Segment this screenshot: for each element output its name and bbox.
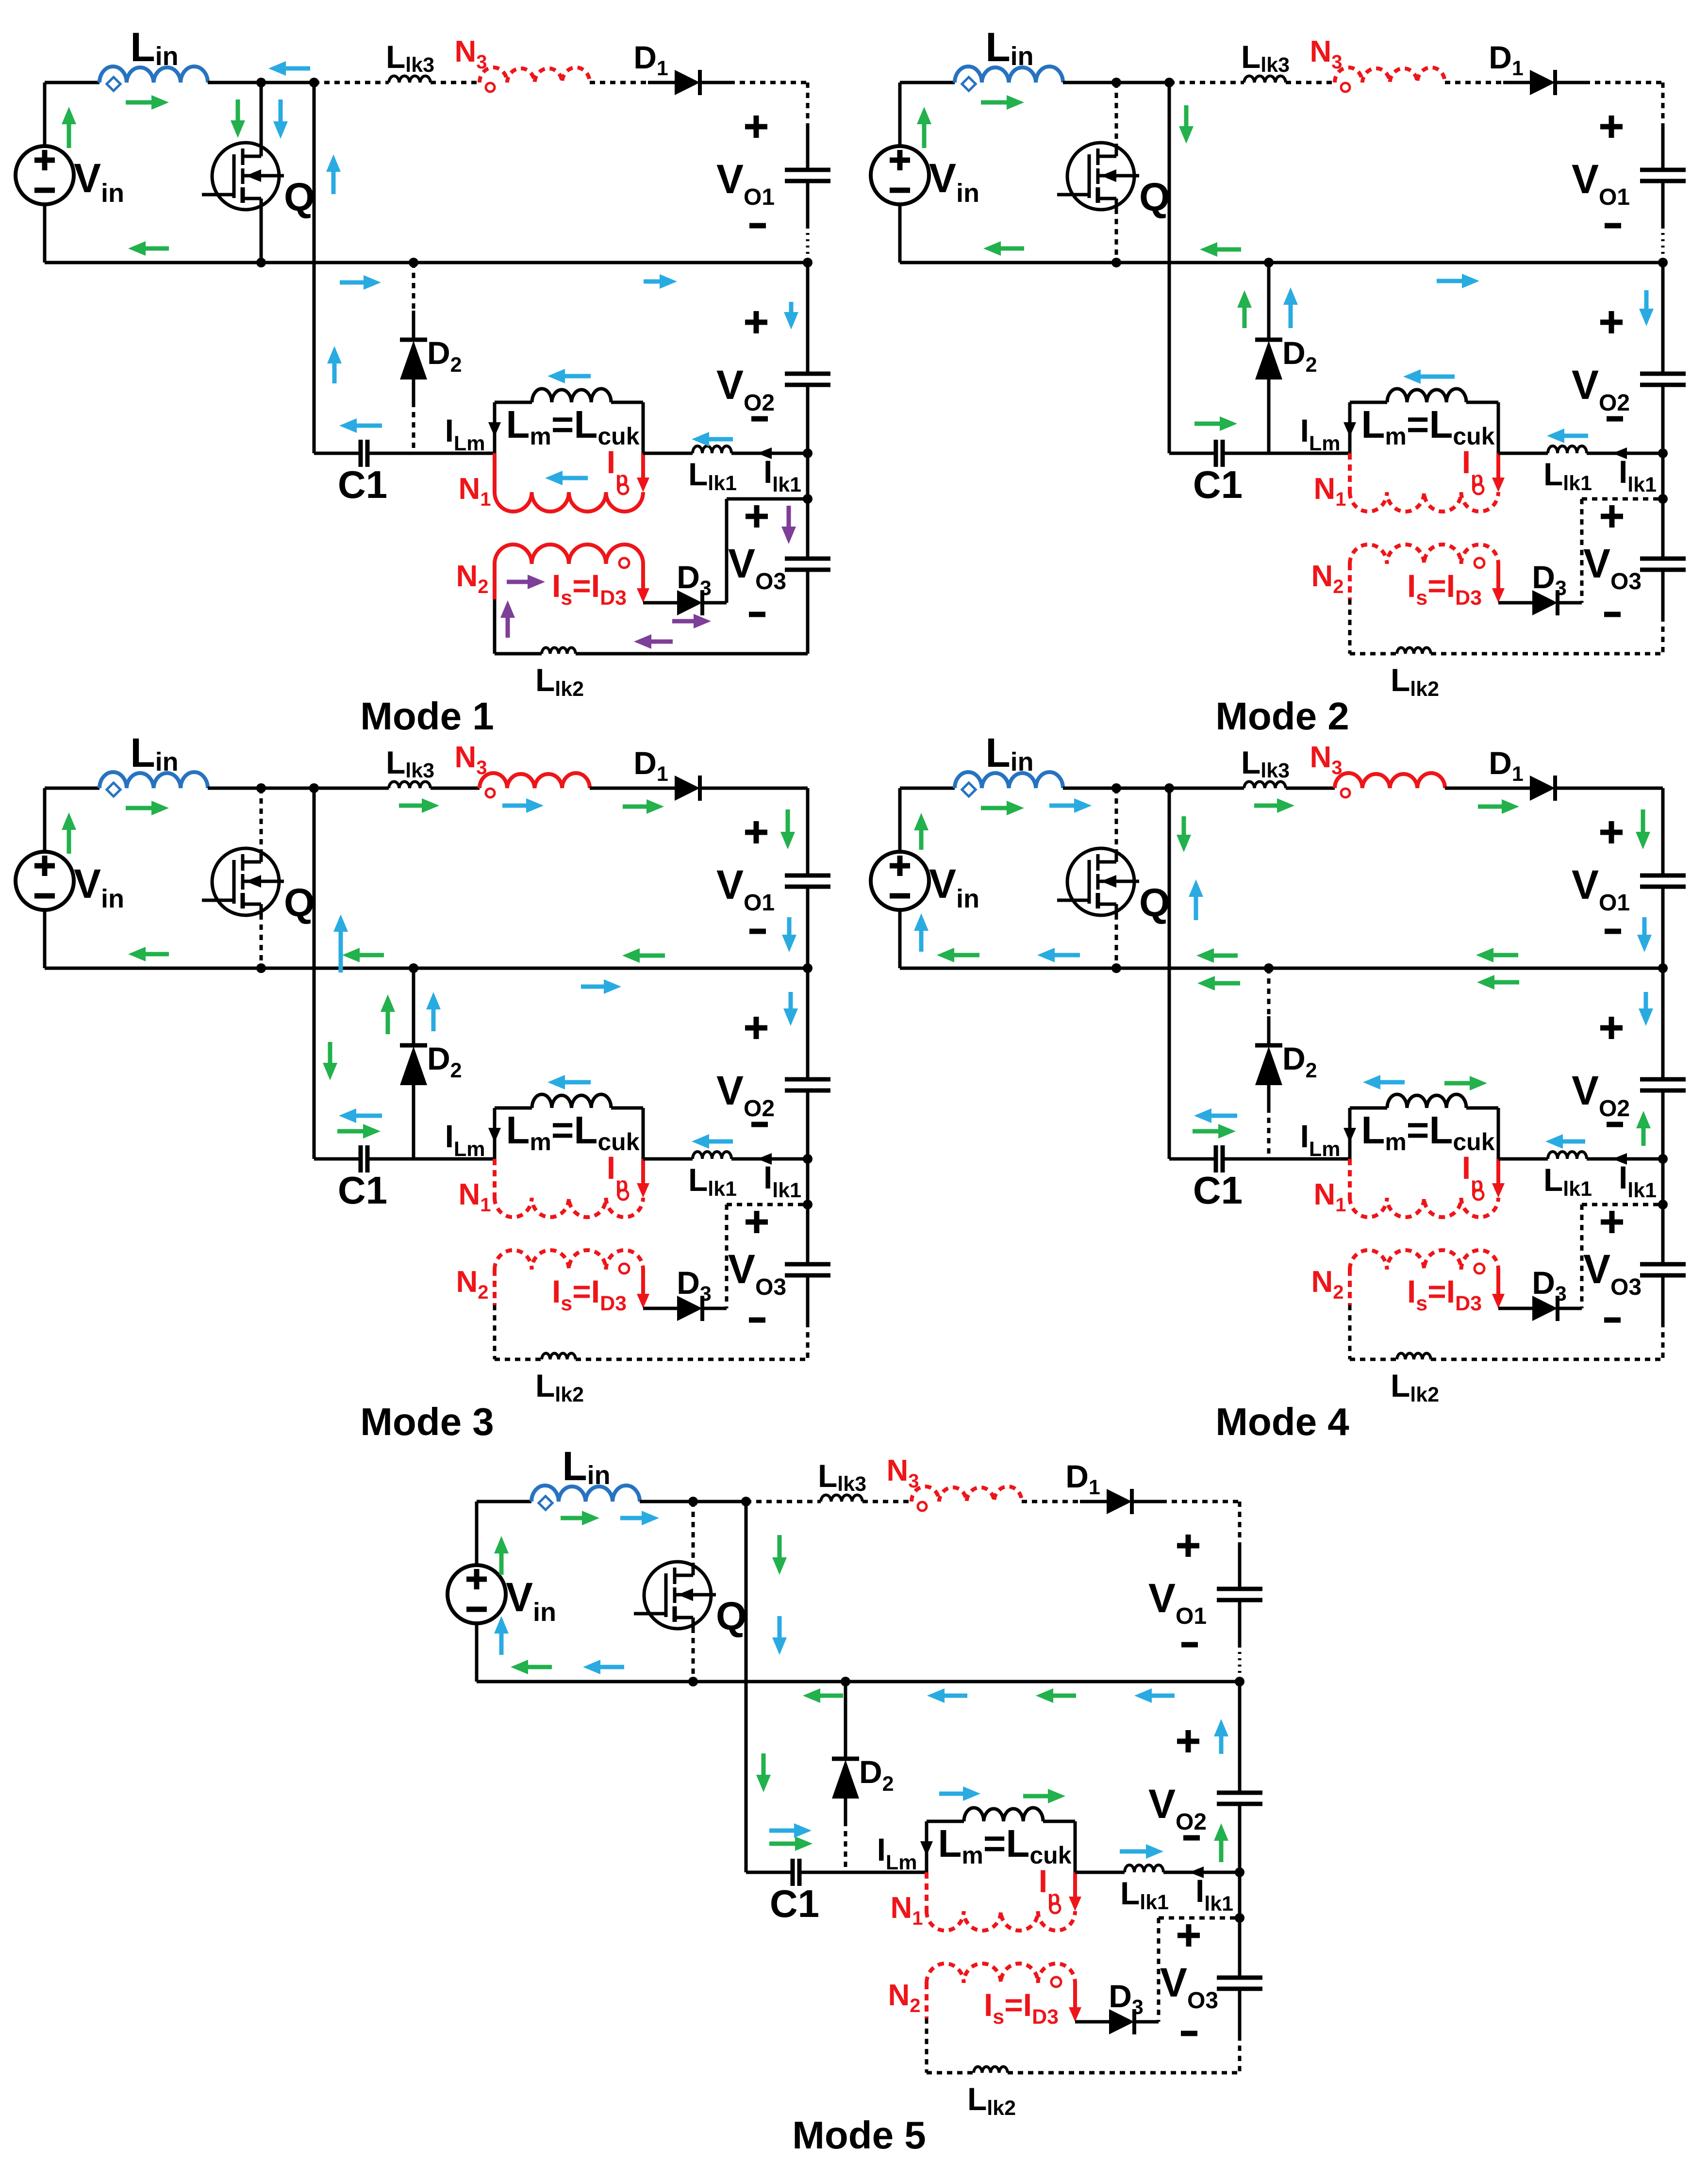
winding N2 (Mode 4)	[1350, 1250, 1498, 1305]
current arrow 10 (Mode 4)	[1476, 948, 1518, 962]
current arrow 2 (Mode 1)	[126, 95, 169, 110]
current arrow 13 (Mode 4)	[1444, 1076, 1487, 1090]
label - VO2 (Mode 2)	[1607, 416, 1623, 422]
label Lin (Mode 1)	[130, 24, 178, 71]
label VO1 (Mode 1)	[716, 156, 775, 210]
wire node B down to C1 (Mode 3)	[313, 788, 316, 1159]
node Llk1 bus (Mode 1)	[803, 448, 813, 458]
current arrow 6 (Mode 5)	[1036, 1688, 1076, 1703]
wire node B to Llk3 (Mode 2)	[1169, 81, 1244, 84]
wire C1 right (Mode 3)	[367, 1157, 495, 1161]
inductor Lm loop (Mode 1)	[495, 402, 643, 453]
wire Lm to Llk1 (Mode 1)	[643, 452, 693, 455]
wire N2 left lower (Mode 5)	[925, 2018, 929, 2073]
current arrow 22 (Mode 4)	[1639, 992, 1653, 1026]
label ILm (Mode 2)	[1300, 413, 1341, 455]
wire node B down to C1 (Mode 5)	[745, 1502, 748, 1872]
wire VO2 top vertical (Mode 3)	[806, 968, 810, 1079]
label Llk1 (Mode 3)	[688, 1162, 737, 1201]
dot marker N3 (Mode 4)	[1341, 789, 1350, 797]
wire Lin to node A (Mode 2)	[1063, 81, 1169, 84]
node Q source (Mode 1)	[256, 258, 266, 267]
wire node B to Llk3 (Mode 4)	[1169, 787, 1244, 790]
wire Llk1 to bus (Mode 1)	[731, 452, 808, 455]
wire Vin bottom (Mode 5)	[475, 1623, 479, 1682]
current arrow 1 (Mode 3)	[62, 812, 76, 854]
wire bus to VO3 cap (Mode 2)	[1661, 453, 1665, 499]
diode D2 branch upper (Mode 3)	[412, 968, 415, 1045]
label D3 (Mode 1)	[677, 559, 712, 600]
wire C1 left (Mode 1)	[314, 452, 361, 455]
wire Llk3 to N3 (Mode 3)	[431, 787, 480, 790]
wire VO3 cap lower (Mode 3)	[806, 1275, 810, 1359]
diode D2 (Mode 3)	[400, 1045, 427, 1107]
label - VO2 (Mode 5)	[1183, 1835, 1200, 1841]
wire Ilk1 lower (Mode 1)	[727, 497, 808, 501]
node VO1 bus (Mode 2)	[1658, 258, 1668, 267]
wire VO1 top vertical (Mode 3)	[806, 788, 810, 875]
diode D2 branch lower (Mode 2)	[1267, 402, 1271, 453]
capacitor VO3 (Mode 1)	[785, 559, 830, 570]
wire VO1 top vertical (Mode 2)	[1661, 83, 1665, 170]
inductor Llk1 (Mode 1)	[693, 446, 731, 453]
dot marker N2 (Mode 1)	[619, 558, 629, 568]
label Is=ID3 (Mode 5)	[984, 1987, 1059, 2029]
wire Vin top (Mode 5)	[477, 1502, 531, 1565]
label N3 (Mode 2)	[1310, 35, 1342, 73]
label Llk2 (Mode 4)	[1391, 1368, 1439, 1406]
current arrowhead Ilk1 (Mode 4)	[1612, 1153, 1627, 1165]
current arrow ILm (Mode 4)	[1343, 1128, 1356, 1142]
label - VO3 (Mode 2)	[1604, 612, 1621, 617]
label + VO1 (Mode 1)	[745, 116, 767, 138]
label N2 (Mode 4)	[1311, 1265, 1343, 1303]
label Mode 1	[360, 694, 494, 738]
inductor Llk3 (Mode 3)	[389, 781, 431, 788]
label Ip (Mode 1)	[607, 444, 629, 491]
label Lm=Lcuk (Mode 2)	[1361, 403, 1494, 450]
capacitor VO1 (Mode 4)	[1640, 875, 1686, 887]
transistor Q (Mode 4)	[1057, 848, 1139, 915]
node B (Mode 5)	[741, 1497, 751, 1506]
inductor Llk1 (Mode 4)	[1548, 1152, 1587, 1159]
label N1 (Mode 2)	[1313, 472, 1346, 510]
current arrow ILm (Mode 2)	[1343, 422, 1356, 437]
label - VO2 (Mode 3)	[751, 1122, 768, 1127]
winding N2 (Mode 3)	[495, 1250, 643, 1305]
svg-text:C1: C1	[338, 463, 387, 506]
label Llk1 (Mode 2)	[1543, 456, 1592, 495]
current arrow 18 (Mode 1)	[672, 614, 711, 628]
node VO1 bus (Mode 3)	[803, 963, 813, 973]
current arrow 7 (Mode 5)	[756, 1753, 771, 1792]
svg-text:Mode 4: Mode 4	[1215, 1400, 1349, 1443]
current arrow 19 (Mode 3)	[547, 1075, 591, 1090]
current arrow 8 (Mode 4)	[1196, 948, 1238, 963]
wire ground bus (Mode 5)	[477, 1680, 1240, 1684]
current arrow Ip (Mode 4)	[1492, 1159, 1505, 1198]
label VO2 (Mode 2)	[1572, 362, 1630, 416]
inductor Lm coil (Mode 5)	[964, 1808, 1043, 1821]
label Llk3 (Mode 3)	[386, 744, 434, 782]
wire Llk3 to N3 (Mode 4)	[1286, 787, 1335, 790]
inductor Llk2 (Mode 4)	[1397, 1353, 1431, 1359]
wire Lm to Llk1 (Mode 5)	[1075, 1871, 1125, 1874]
current arrow Is (Mode 5)	[1069, 1983, 1081, 2022]
wire N3 to D1 (Mode 3)	[590, 787, 648, 790]
label Is=ID3 (Mode 2)	[1407, 568, 1482, 610]
wire Llk2 bottom left (Mode 3)	[495, 1358, 542, 1361]
wire C1 left (Mode 3)	[314, 1157, 361, 1161]
label - VO1 (Mode 5)	[1181, 1642, 1198, 1648]
label VO1 (Mode 4)	[1572, 862, 1630, 916]
label Llk3 (Mode 5)	[818, 1458, 866, 1496]
capacitor C1 (Mode 5)	[793, 1859, 799, 1886]
inductor Lm loop (Mode 3)	[495, 1108, 643, 1159]
wire node B down to C1 (Mode 2)	[1168, 83, 1171, 453]
label Mode 3	[360, 1400, 494, 1443]
wire VO2 bottom vertical (Mode 5)	[1238, 1804, 1242, 1872]
label Q (Mode 1)	[284, 175, 315, 219]
inductor Lm coil (Mode 4)	[1387, 1094, 1466, 1108]
inductor Llk1 (Mode 2)	[1548, 446, 1587, 453]
transistor Q drain lead (Mode 1)	[260, 83, 263, 144]
label VO1 (Mode 5)	[1148, 1575, 1207, 1629]
label Ip (Mode 4)	[1462, 1150, 1484, 1196]
current arrow 2 (Mode 4)	[981, 801, 1024, 815]
inductor Lm coil (Mode 1)	[532, 389, 611, 402]
wire bus to VO3 cap (Mode 3)	[806, 1159, 810, 1205]
label + VO1 (Mode 2)	[1600, 116, 1623, 138]
dot marker N3 (Mode 5)	[918, 1502, 927, 1511]
node A at Q drain (Mode 1)	[256, 78, 266, 87]
label ILm (Mode 3)	[445, 1118, 485, 1161]
wire N2 to D3 (Mode 4)	[1498, 1307, 1532, 1310]
wire ground bus (Mode 3)	[45, 967, 808, 970]
label + VO1 (Mode 3)	[745, 821, 767, 843]
label Vin (Mode 5)	[506, 1574, 556, 1627]
capacitor VO1 (Mode 5)	[1217, 1589, 1262, 1600]
current arrow ILm (Mode 5)	[920, 1841, 933, 1856]
diode D3 (Mode 3)	[677, 1296, 727, 1321]
label + VO3 (Mode 3)	[746, 1211, 768, 1233]
current arrow 8 (Mode 5)	[769, 1836, 813, 1851]
label - VO3 (Mode 5)	[1181, 2031, 1197, 2036]
inductor Lm loop (Mode 4)	[1350, 1108, 1498, 1159]
current arrow 1 (Mode 1)	[62, 107, 76, 148]
label N2 (Mode 3)	[456, 1265, 488, 1303]
capacitor VO3 (Mode 2)	[1640, 559, 1686, 570]
current arrow 17 (Mode 3)	[426, 992, 441, 1031]
current arrow 6 (Mode 1)	[273, 99, 288, 139]
inductor Lm loop (Mode 5)	[927, 1821, 1075, 1872]
svg-text:Q: Q	[284, 881, 315, 925]
label + VO2 (Mode 4)	[1600, 1017, 1623, 1039]
current arrow 4 (Mode 2)	[1179, 105, 1194, 144]
label + VO3 (Mode 4)	[1601, 1211, 1623, 1233]
diode D3 (Mode 2)	[1532, 590, 1582, 615]
wire node B to Llk3 (Mode 3)	[314, 787, 389, 790]
diode D2 branch upper (Mode 4)	[1267, 968, 1271, 1045]
node VO1 bus (Mode 1)	[803, 258, 813, 267]
current arrow Is (Mode 4)	[1492, 1270, 1505, 1308]
inductor Lin (Mode 1)	[99, 66, 208, 91]
wire C1 right (Mode 5)	[799, 1871, 927, 1874]
svg-text:Mode 5: Mode 5	[792, 2113, 926, 2157]
label D3 (Mode 4)	[1532, 1265, 1567, 1305]
current arrow 9 (Mode 1)	[644, 274, 677, 289]
label VO1 (Mode 2)	[1572, 156, 1630, 210]
wire Vin top (Mode 4)	[900, 788, 955, 852]
current arrow Is (Mode 1)	[637, 564, 649, 603]
diode D2 branch upper (Mode 1)	[412, 263, 415, 340]
wire VO3 box left (Mode 3)	[725, 1205, 729, 1308]
dot marker N2 (Mode 4)	[1475, 1264, 1484, 1273]
node Q source (Mode 4)	[1111, 963, 1121, 973]
label + VO1 (Mode 4)	[1600, 821, 1623, 843]
label N2 (Mode 5)	[888, 1979, 920, 2016]
wire bus to VO3 cap (Mode 5)	[1238, 1872, 1242, 1918]
wire N2 to D3 (Mode 3)	[643, 1307, 677, 1310]
current arrow 10 (Mode 3)	[622, 948, 665, 963]
label Lm=Lcuk (Mode 5)	[938, 1822, 1071, 1869]
current arrow 2 (Mode 2)	[981, 95, 1024, 110]
label - VO3 (Mode 1)	[749, 612, 765, 617]
winding N2 (Mode 1)	[495, 545, 643, 599]
current arrow 12 (Mode 5)	[620, 1511, 659, 1525]
wire VO3 box left (Mode 5)	[1157, 1918, 1161, 2022]
label Mode 2	[1215, 694, 1349, 738]
diode D2 branch lower (Mode 4)	[1267, 1107, 1271, 1159]
node D2 bus (Mode 3)	[409, 963, 418, 973]
label VO3 (Mode 2)	[1583, 541, 1642, 594]
label ILm (Mode 4)	[1300, 1118, 1341, 1161]
label Ilk1 (Mode 2)	[1619, 454, 1657, 496]
current arrow 6 (Mode 2)	[1237, 290, 1252, 328]
current arrowhead Ilk1 (Mode 3)	[757, 1153, 772, 1165]
current arrow 20 (Mode 5)	[1214, 1719, 1228, 1754]
current arrow 15 (Mode 1)	[692, 432, 733, 446]
inductor Llk2 (Mode 5)	[974, 2066, 1008, 2073]
label VO3 (Mode 1)	[728, 541, 786, 594]
wire D1 to corner (Mode 2)	[1585, 81, 1663, 84]
node D2 bus (Mode 4)	[1264, 963, 1274, 973]
label D1 (Mode 3)	[633, 745, 668, 786]
label + VO2 (Mode 5)	[1177, 1730, 1199, 1752]
current arrow 7 (Mode 2)	[1194, 416, 1237, 431]
wire VO3 cap upper (Mode 3)	[806, 1205, 810, 1264]
wire D1 to corner (Mode 4)	[1585, 787, 1663, 790]
diode D3 (Mode 5)	[1109, 2009, 1159, 2034]
diode D2 branch upper (Mode 5)	[844, 1682, 847, 1759]
wire D1 to corner (Mode 5)	[1161, 1500, 1240, 1503]
label N2 (Mode 1)	[456, 560, 488, 597]
wire C1 left (Mode 5)	[746, 1871, 793, 1874]
voltage source Vin (Mode 4)	[871, 852, 929, 910]
label D2 (Mode 5)	[859, 1754, 894, 1796]
wire Lm to Llk1 (Mode 4)	[1498, 1157, 1548, 1161]
label Ip (Mode 5)	[1039, 1863, 1061, 1910]
label Ilk1 (Mode 1)	[763, 454, 801, 496]
wire VO2 bottom vertical (Mode 2)	[1661, 385, 1665, 453]
current arrow 17 (Mode 5)	[769, 1823, 812, 1838]
current arrow 18 (Mode 5)	[939, 1786, 980, 1801]
label - VO3 (Mode 4)	[1604, 1318, 1621, 1323]
wire Llk2 bottom left (Mode 1)	[495, 652, 542, 656]
label D1 (Mode 1)	[633, 39, 668, 80]
current arrow 7 (Mode 1)	[326, 154, 341, 194]
current arrow 5 (Mode 4)	[1478, 799, 1519, 814]
current arrow 5 (Mode 1)	[268, 61, 310, 76]
diode D2 (Mode 1)	[400, 340, 427, 402]
winding N3 (Mode 2)	[1335, 67, 1445, 83]
label N1 (Mode 5)	[890, 1891, 923, 1929]
diode D2 (Mode 4)	[1255, 1045, 1282, 1107]
label Lm=Lcuk (Mode 4)	[1361, 1108, 1494, 1156]
label ILm (Mode 1)	[445, 413, 485, 455]
node Llk1 bus (Mode 4)	[1658, 1154, 1668, 1164]
node A at Q drain (Mode 4)	[1111, 783, 1121, 793]
label Vin (Mode 1)	[74, 155, 124, 208]
wire Vin bottom (Mode 3)	[43, 910, 47, 968]
transistor Q (Mode 5)	[634, 1562, 716, 1629]
wire N3 to D1 (Mode 5)	[1022, 1500, 1080, 1503]
current arrow 7 (Mode 4)	[1177, 816, 1191, 852]
dot marker N1 (Mode 3)	[618, 1190, 628, 1200]
wire VO3 cap lower (Mode 5)	[1238, 1989, 1242, 2073]
label N2 (Mode 2)	[1311, 560, 1343, 597]
wire N2 to D3 (Mode 5)	[1075, 2020, 1109, 2024]
label C1 (Mode 5)	[770, 1882, 819, 1925]
svg-text:C1: C1	[1193, 1169, 1243, 1212]
current arrow 1 (Mode 2)	[917, 107, 931, 148]
wire Llk2 bottom right (Mode 2)	[1431, 652, 1663, 656]
wire Lm to Llk1 (Mode 2)	[1498, 452, 1548, 455]
current arrow 15 (Mode 3)	[581, 979, 621, 994]
current arrow 14 (Mode 5)	[772, 1616, 787, 1655]
label D1 (Mode 2)	[1489, 39, 1524, 80]
label D2 (Mode 3)	[427, 1040, 462, 1082]
transistor Q drain lead (Mode 3)	[260, 788, 263, 849]
inductor Llk2 (Mode 1)	[542, 647, 576, 654]
current arrow 1 (Mode 5)	[494, 1536, 509, 1575]
node B (Mode 2)	[1164, 78, 1174, 87]
wire VO3 box left (Mode 4)	[1580, 1205, 1584, 1308]
dot marker N3 (Mode 3)	[486, 789, 495, 797]
label N3 (Mode 4)	[1310, 741, 1342, 778]
wire VO1 bottom vertical (Mode 3)	[806, 887, 810, 968]
current arrow 8 (Mode 1)	[340, 275, 381, 290]
current arrow 3 (Mode 4)	[937, 948, 979, 962]
current arrow Ip (Mode 1)	[637, 453, 649, 492]
transistor Q source lead (Mode 1)	[260, 209, 263, 263]
label + VO3 (Mode 5)	[1177, 1924, 1200, 1947]
current arrow 5 (Mode 5)	[803, 1688, 843, 1703]
voltage source Vin (Mode 2)	[871, 146, 929, 204]
label Q (Mode 2)	[1139, 175, 1170, 219]
current arrow Ip (Mode 3)	[637, 1159, 649, 1198]
current arrow ILm (Mode 1)	[488, 422, 501, 437]
label - VO1 (Mode 1)	[749, 223, 766, 229]
wire Vin bottom (Mode 4)	[898, 910, 902, 968]
label - VO2 (Mode 1)	[751, 416, 768, 422]
label D3 (Mode 3)	[677, 1265, 712, 1305]
current arrow 16 (Mode 3)	[783, 992, 798, 1026]
label Q (Mode 5)	[716, 1594, 747, 1638]
label - VO1 (Mode 3)	[749, 929, 766, 934]
wire bus to VO3 cap (Mode 1)	[806, 453, 810, 499]
capacitor VO2 (Mode 5)	[1217, 1793, 1262, 1804]
label VO1 (Mode 3)	[716, 862, 775, 916]
wire Llk3 to N3 (Mode 5)	[862, 1500, 912, 1503]
label Is=ID3 (Mode 3)	[552, 1273, 627, 1315]
wire VO3 cap lower (Mode 4)	[1661, 1275, 1665, 1359]
label D2 (Mode 2)	[1282, 335, 1317, 377]
label Mode 4	[1215, 1400, 1349, 1443]
svg-text:C1: C1	[1193, 463, 1243, 506]
current arrow 18 (Mode 4)	[1189, 879, 1203, 920]
svg-text:Q: Q	[716, 1594, 747, 1638]
wire VO2 top vertical (Mode 4)	[1661, 968, 1665, 1079]
current arrow 13 (Mode 3)	[333, 914, 348, 973]
diode D1 (Mode 1)	[648, 70, 730, 95]
label VO3 (Mode 3)	[728, 1246, 786, 1300]
wire VO3 box left (Mode 2)	[1580, 499, 1584, 603]
current arrow Ip (Mode 2)	[1492, 453, 1505, 492]
current arrow 13 (Mode 5)	[583, 1660, 624, 1674]
label VO3 (Mode 4)	[1583, 1246, 1642, 1300]
wire VO1 top vertical (Mode 4)	[1661, 788, 1665, 875]
wire VO2 top vertical (Mode 2)	[1661, 263, 1665, 374]
node Q source (Mode 3)	[256, 963, 266, 973]
wire VO2 bottom vertical (Mode 1)	[806, 385, 810, 453]
wire VO1 top vertical (Mode 1)	[806, 83, 810, 170]
diode D2 (Mode 2)	[1255, 340, 1282, 402]
transistor Q (Mode 1)	[202, 143, 284, 210]
current arrow 20 (Mode 3)	[692, 1134, 733, 1149]
current arrow 16 (Mode 5)	[1134, 1688, 1175, 1703]
wire VO3 cap upper (Mode 4)	[1661, 1205, 1665, 1264]
current arrow 2 (Mode 5)	[561, 1511, 599, 1525]
label Ip (Mode 3)	[607, 1150, 629, 1196]
label N1 (Mode 3)	[458, 1178, 491, 1216]
svg-text:Mode 2: Mode 2	[1215, 694, 1349, 738]
wire Llk1 to bus (Mode 4)	[1587, 1157, 1663, 1161]
capacitor C1 (Mode 4)	[1216, 1145, 1223, 1172]
diode D3 (Mode 1)	[677, 590, 727, 615]
svg-text:Q: Q	[1139, 881, 1170, 925]
current arrow 8 (Mode 2)	[1283, 287, 1298, 328]
current arrowhead Ilk1 (Mode 2)	[1612, 447, 1627, 459]
inductor Lin (Mode 2)	[955, 66, 1063, 91]
wire N2 to D3 (Mode 1)	[643, 601, 677, 605]
current arrow 11 (Mode 5)	[494, 1616, 509, 1655]
wire Ilk1 lower (Mode 5)	[1159, 1916, 1240, 1920]
capacitor VO2 (Mode 4)	[1640, 1079, 1686, 1090]
wire C1 right (Mode 2)	[1223, 452, 1350, 455]
label Q (Mode 4)	[1139, 881, 1170, 925]
wire D1 to corner (Mode 1)	[730, 81, 808, 84]
transistor Q (Mode 2)	[1057, 143, 1139, 210]
inductor Lin (Mode 3)	[99, 772, 208, 796]
winding N3 (Mode 1)	[480, 67, 590, 83]
label Lin (Mode 2)	[985, 24, 1033, 71]
label + VO1 (Mode 5)	[1177, 1535, 1199, 1557]
current arrow 1 (Mode 4)	[914, 813, 929, 850]
wire node B to Llk3 (Mode 5)	[746, 1500, 821, 1503]
current arrow 12 (Mode 3)	[502, 798, 544, 813]
wire ground bus (Mode 4)	[900, 967, 1663, 970]
